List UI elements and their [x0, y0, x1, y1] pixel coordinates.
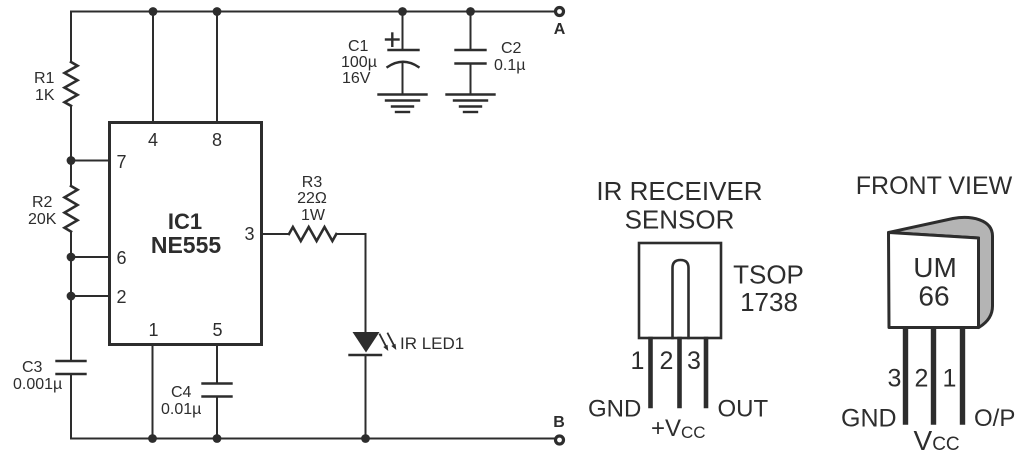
transistor UM66 package 3d top and side — [889, 217, 993, 327]
node top junction pin4 — [149, 7, 158, 16]
svg-text:A: A — [554, 21, 566, 38]
svg-text:C1: C1 — [348, 38, 369, 55]
LED emission arrows — [380, 335, 386, 347]
svg-text:1K: 1K — [35, 87, 55, 104]
wire pin4 drop — [152, 12, 154, 122]
svg-text:20K: 20K — [28, 211, 57, 228]
svg-text:4: 4 — [148, 130, 158, 150]
TSOP pin 1 lead — [648, 339, 653, 406]
svg-text:1: 1 — [148, 320, 158, 340]
wire LED to bottom rail — [365, 355, 367, 439]
svg-text:+VCC: +VCC — [651, 415, 706, 442]
wire C1 drop — [402, 12, 404, 50]
ground C1 — [379, 93, 427, 95]
TSOP pin 3 lead — [704, 339, 709, 406]
svg-text:IR LED1: IR LED1 — [400, 334, 464, 353]
svg-text:3: 3 — [687, 347, 701, 375]
wire R3 to LED — [337, 234, 366, 332]
wire bottom rail — [71, 438, 555, 440]
svg-text:O/P: O/P — [974, 405, 1015, 432]
wire pin6 stub — [71, 256, 108, 258]
node B terminal — [556, 436, 564, 444]
wire C1 to ground — [402, 64, 404, 95]
svg-text:VCC: VCC — [914, 425, 960, 454]
svg-text:6: 6 — [116, 248, 126, 268]
svg-text:GND: GND — [841, 405, 897, 433]
svg-text:0.001µ: 0.001µ — [13, 376, 62, 393]
svg-text:C4: C4 — [171, 384, 192, 401]
TSOP pin 2 lead — [677, 339, 682, 406]
LED IR LED1 — [353, 332, 380, 353]
IR receiver lens window — [673, 260, 689, 338]
svg-text:1738: 1738 — [740, 287, 798, 317]
svg-text:R3: R3 — [302, 174, 323, 191]
node C1 top junction — [398, 7, 407, 16]
svg-text:R1: R1 — [34, 70, 55, 87]
svg-text:OUT: OUT — [718, 396, 769, 423]
svg-text:3: 3 — [888, 365, 902, 393]
svg-text:100µ: 100µ — [341, 54, 377, 71]
ground C2 — [447, 93, 495, 95]
wire R2 to C3 — [70, 232, 72, 360]
wire C3 to bottom rail — [70, 374, 72, 439]
node C4 bottom junction — [213, 434, 222, 443]
wire pin2 stub — [71, 295, 108, 297]
node top junction pin8 — [213, 7, 222, 16]
svg-text:7: 7 — [116, 152, 126, 172]
svg-text:2: 2 — [915, 365, 929, 393]
wire left vertical upper (top rail to R1) — [70, 12, 72, 63]
svg-text:1: 1 — [631, 347, 645, 375]
node A terminal — [556, 8, 564, 16]
wire C2 to ground — [470, 64, 472, 95]
resistor R1 — [65, 62, 78, 106]
svg-text:2: 2 — [660, 347, 674, 375]
svg-text:1W: 1W — [301, 207, 326, 224]
node pin6 junction — [67, 253, 76, 262]
plus polarity mark — [386, 38, 399, 40]
capacitor C1 electrolytic — [389, 49, 419, 51]
capacitor C2 — [456, 49, 486, 51]
svg-text:B: B — [553, 414, 565, 431]
svg-text:NE555: NE555 — [151, 232, 222, 258]
svg-text:TSOP: TSOP — [733, 260, 804, 290]
UM66 pin 2 lead — [931, 329, 936, 422]
svg-text:16V: 16V — [342, 70, 371, 87]
svg-text:0.1µ: 0.1µ — [494, 57, 525, 74]
wire C4 to bottom rail — [216, 397, 218, 439]
UM66 pin 1 lead — [960, 329, 965, 422]
svg-text:C3: C3 — [22, 359, 43, 376]
wire pin5 drop — [216, 346, 218, 383]
node LED bottom junction — [361, 434, 370, 443]
svg-text:5: 5 — [212, 320, 222, 340]
node pin2 junction — [67, 292, 76, 301]
node pin1 bottom junction — [148, 434, 157, 443]
svg-text:IC1: IC1 — [168, 209, 202, 234]
UM66 pin 3 lead — [903, 329, 908, 422]
wire R1 to pin7 junction — [70, 106, 72, 186]
resistor R2 — [65, 186, 78, 232]
wire pin8 drop — [216, 12, 218, 122]
IR receiver sensor U1 body — [639, 243, 721, 338]
capacitor C3 — [57, 360, 86, 362]
svg-text:GND: GND — [588, 396, 641, 423]
capacitor C4 — [203, 382, 232, 384]
svg-text:66: 66 — [918, 281, 949, 312]
wire pin1 drop — [152, 346, 154, 439]
svg-text:3: 3 — [244, 224, 254, 244]
resistor R3 — [289, 227, 336, 241]
svg-text:22Ω: 22Ω — [297, 190, 327, 207]
node pin7 junction — [67, 156, 76, 165]
svg-text:8: 8 — [212, 130, 222, 150]
svg-text:C2: C2 — [501, 40, 522, 57]
svg-text:R2: R2 — [32, 194, 53, 211]
op-amp IC1 NE555 body — [110, 123, 262, 345]
svg-text:1: 1 — [943, 365, 957, 393]
wire C2 drop — [470, 12, 472, 50]
transistor UM66 front face — [889, 233, 979, 328]
svg-text:FRONT VIEW: FRONT VIEW — [856, 172, 1013, 200]
svg-text:0.01µ: 0.01µ — [161, 401, 201, 418]
wire pin3 to R3 — [263, 233, 289, 235]
wire pin7 stub — [71, 160, 108, 162]
svg-text:SENSOR: SENSOR — [625, 205, 735, 235]
svg-text:UM: UM — [913, 252, 957, 283]
node C2 top junction — [466, 7, 475, 16]
wire top supply rail — [71, 11, 555, 13]
svg-text:IR RECEIVER: IR RECEIVER — [596, 176, 762, 206]
svg-text:2: 2 — [116, 287, 126, 307]
